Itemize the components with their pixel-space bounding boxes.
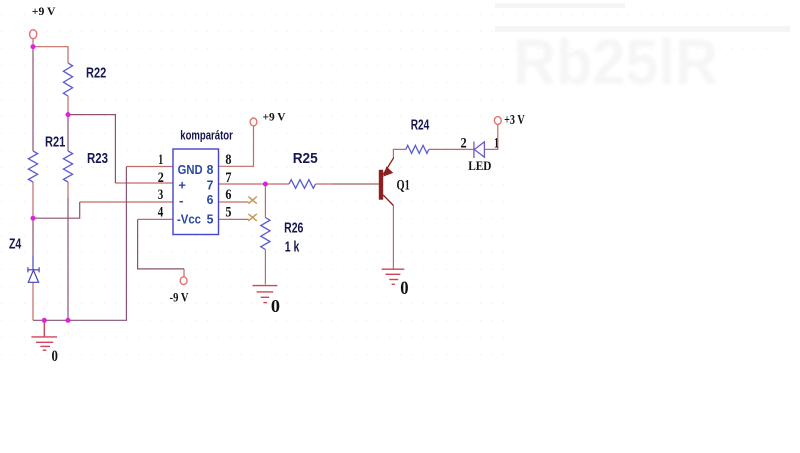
svg-text:R21: R21 (45, 133, 65, 150)
svg-text:1: 1 (494, 136, 499, 152)
svg-text:Q1: Q1 (397, 178, 410, 194)
svg-text:6: 6 (225, 187, 231, 203)
svg-text:LED: LED (468, 158, 491, 173)
svg-text:4: 4 (158, 205, 164, 221)
svg-text:+9 V: +9 V (263, 109, 286, 123)
svg-text:3: 3 (158, 187, 164, 203)
svg-text:R25: R25 (293, 150, 318, 167)
svg-text:8: 8 (207, 162, 214, 177)
svg-text:+3 V: +3 V (504, 113, 525, 128)
svg-text:5: 5 (207, 211, 214, 226)
svg-text:5: 5 (225, 205, 231, 221)
svg-text:2: 2 (158, 170, 164, 186)
svg-text:2: 2 (461, 136, 467, 152)
svg-text:1 k: 1 k (285, 239, 300, 256)
svg-text:8: 8 (225, 152, 231, 168)
svg-text:Rb25lR: Rb25lR (513, 26, 718, 98)
svg-text:komparátor: komparátor (180, 127, 233, 142)
svg-text:GND: GND (178, 162, 203, 177)
svg-text:1: 1 (158, 152, 163, 168)
svg-text:7: 7 (225, 170, 231, 186)
svg-text:6: 6 (207, 192, 214, 207)
svg-text:R22: R22 (86, 64, 106, 81)
svg-text:R26: R26 (284, 220, 303, 237)
svg-text:-9 V: -9 V (170, 289, 189, 304)
svg-text:Z4: Z4 (9, 235, 22, 252)
svg-text:+9 V: +9 V (32, 4, 56, 18)
svg-text:+: + (178, 178, 186, 193)
svg-text:0: 0 (400, 278, 408, 299)
svg-text:-Vcc: -Vcc (177, 211, 201, 226)
svg-text:7: 7 (207, 178, 214, 193)
svg-text:R24: R24 (411, 117, 430, 134)
svg-text:0: 0 (52, 348, 58, 365)
svg-text:0: 0 (271, 296, 280, 316)
svg-text:-: - (179, 193, 184, 208)
svg-text:R23: R23 (87, 150, 108, 167)
